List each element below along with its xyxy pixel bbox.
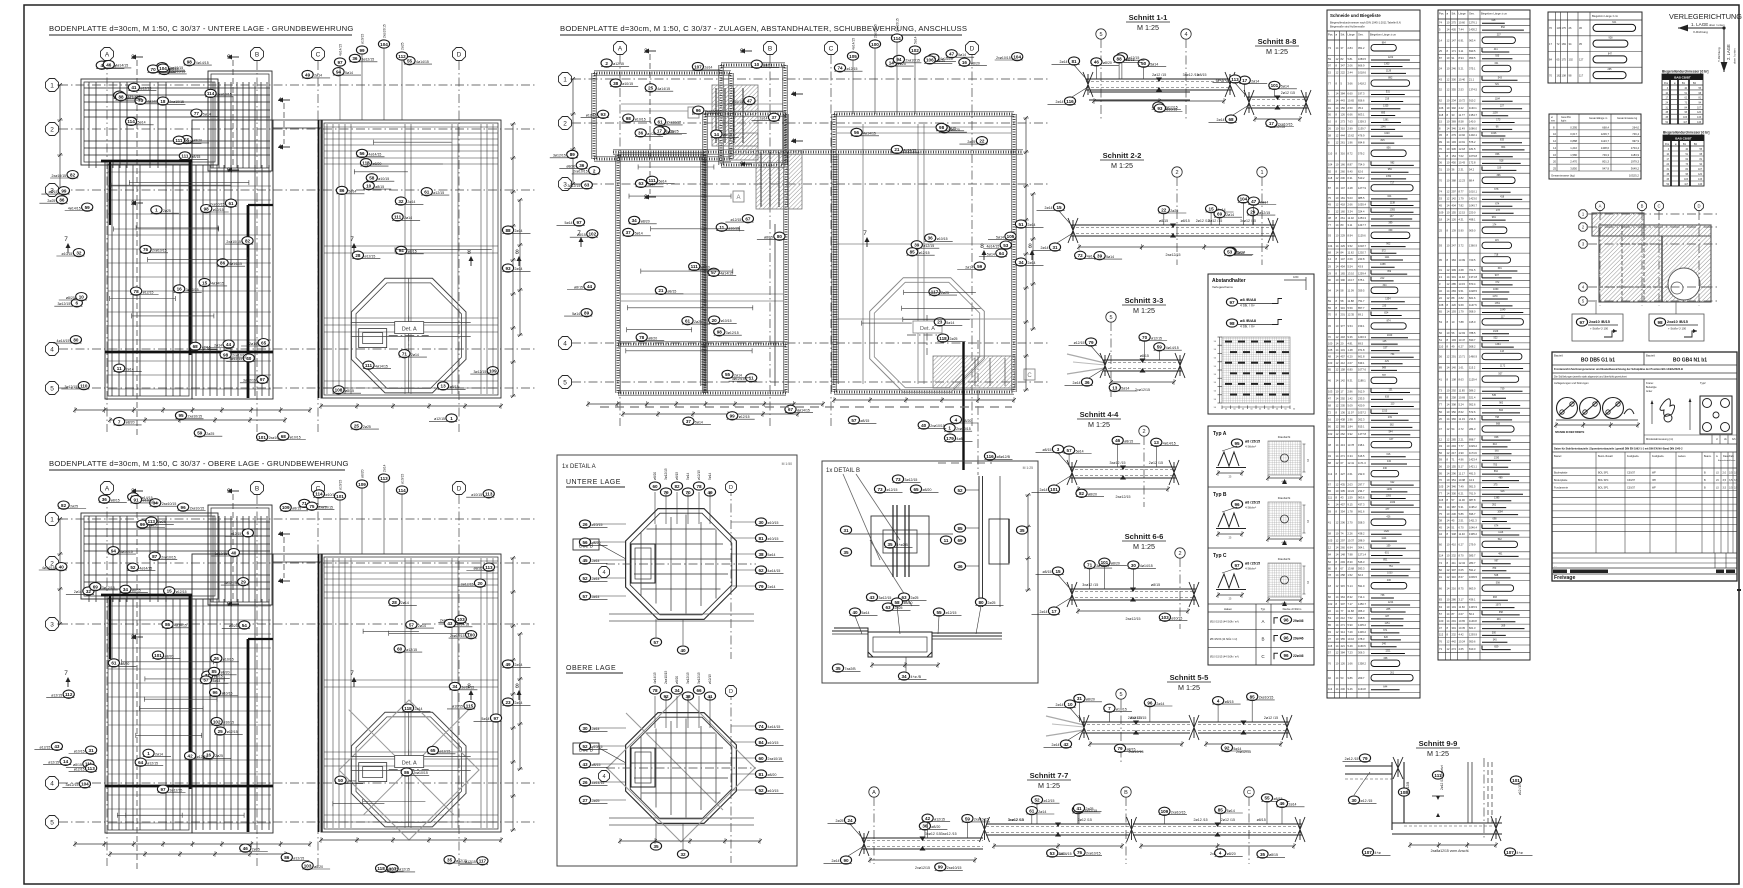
svg-text:314: 314 — [1341, 630, 1346, 634]
svg-text:5: 5 — [1109, 315, 1112, 321]
svg-text:12.15: 12.15 — [1459, 210, 1466, 214]
mass summary table — [1549, 114, 1641, 179]
svg-text:1129.6: 1129.6 — [1358, 234, 1366, 238]
svg-text:2xø8ø12/15 vorm.Anschl.: 2xø8ø12/15 vorm.Anschl. — [1431, 849, 1470, 853]
svg-text:1: 1 — [450, 416, 453, 421]
svg-text:1423.0: 1423.0 — [1469, 197, 1477, 201]
svg-text:2.86: 2.86 — [1348, 390, 1354, 394]
svg-text:2xø10/15: 2xø10/15 — [874, 24, 878, 38]
plan variant 3 outline walls — [592, 63, 1016, 395]
plan variant 2 thick walls — [101, 554, 322, 832]
section Schnitt 8-8 labels — [1209, 75, 1297, 127]
svg-text:2xø10/15: 2xø10/15 — [1259, 696, 1274, 700]
svg-text:2ø14: 2ø14 — [1060, 60, 1068, 64]
svg-text:ø12/15: ø12/15 — [708, 674, 712, 684]
svg-text:324: 324 — [1387, 195, 1392, 198]
svg-text:98: 98 — [1657, 320, 1663, 325]
svg-text:Biegeform Länge ± cm: Biegeform Länge ± cm — [1481, 12, 1507, 16]
svg-text:2ø25: 2ø25 — [836, 819, 844, 823]
svg-text:981: 981 — [1492, 216, 1497, 219]
svg-text:1351: 1351 — [1495, 302, 1501, 305]
section Schnitt 7-7 axis bubbles — [869, 787, 1254, 864]
svg-text:11: 11 — [117, 366, 122, 371]
svg-text:103: 103 — [457, 617, 465, 622]
svg-text:97: 97 — [337, 60, 343, 65]
svg-text:96: 96 — [181, 505, 187, 510]
svg-text:2xø10/15: 2xø10/15 — [947, 866, 962, 870]
svg-text:548: 548 — [1494, 574, 1499, 577]
svg-text:13.10: 13.10 — [1348, 271, 1355, 275]
svg-text:7.29: 7.29 — [1348, 630, 1354, 634]
svg-text:102: 102 — [1569, 58, 1574, 62]
svg-text:3,5: 3,5 — [1734, 479, 1738, 482]
section Schnitt 4-4 slab — [1067, 460, 1179, 499]
svg-text:104: 104 — [159, 66, 167, 71]
svg-text:87: 87 — [1452, 612, 1455, 616]
svg-text:1402.1: 1402.1 — [1469, 133, 1477, 137]
section Schnitt 3-3 title — [1122, 296, 1166, 315]
svg-text:ø8/20: ø8/20 — [971, 61, 980, 65]
svg-text:69: 69 — [1217, 212, 1223, 217]
svg-text:2ø12 /15: 2ø12 /15 — [1152, 73, 1166, 77]
svg-text:Festigkeits-: Festigkeits- — [1652, 455, 1664, 458]
svg-text:671: 671 — [1383, 629, 1388, 632]
svg-text:429: 429 — [1385, 360, 1390, 363]
svg-text:Det. A: Det. A — [402, 761, 417, 767]
svg-text:5ø14: 5ø14 — [572, 312, 580, 316]
svg-text:92: 92 — [1328, 169, 1331, 173]
svg-text:70: 70 — [1439, 478, 1442, 482]
svg-text:3ø12/15: 3ø12/15 — [726, 331, 739, 335]
svg-text:158: 158 — [1341, 368, 1346, 372]
svg-text:285: 285 — [1452, 437, 1457, 441]
svg-text:91: 91 — [1328, 106, 1331, 110]
svg-text:104: 104 — [1328, 244, 1333, 248]
svg-text:1: 1 — [50, 82, 54, 89]
svg-text:50: 50 — [1214, 407, 1217, 409]
svg-text:ø12/15: ø12/15 — [934, 817, 945, 821]
svg-text:8: 8 — [1336, 496, 1338, 500]
svg-text:93: 93 — [1439, 244, 1442, 248]
plan variant 2 dimension lines — [57, 517, 523, 857]
svg-text:2ø14: 2ø14 — [1028, 223, 1036, 227]
svg-text:155: 155 — [1452, 210, 1457, 214]
svg-text:197.3: 197.3 — [1358, 92, 1365, 96]
plan variant 1 inner reinforcement lines — [84, 60, 498, 438]
svg-text:Ges.: Ges. — [1469, 12, 1475, 16]
svg-text:7: 7 — [350, 236, 354, 243]
svg-text:2ø14: 2ø14 — [404, 216, 412, 220]
svg-text:10: 10 — [1447, 389, 1450, 393]
svg-text:1040: 1040 — [1387, 334, 1393, 337]
svg-text:147: 147 — [1341, 257, 1346, 261]
section 1-1 lower band — [1089, 92, 1190, 100]
svg-text:2: 2 — [50, 126, 54, 133]
svg-text:8: 8 — [1336, 313, 1338, 317]
svg-text:1.78: 1.78 — [1348, 509, 1354, 513]
svg-text:987.8: 987.8 — [1469, 498, 1476, 502]
svg-text:481: 481 — [1498, 552, 1503, 555]
svg-text:34: 34 — [452, 684, 458, 689]
svg-text:Schnitt 2-2: Schnitt 2-2 — [1103, 151, 1142, 160]
svg-text:57: 57 — [1328, 651, 1331, 655]
svg-text:50: 50 — [1141, 61, 1147, 66]
svg-text:305: 305 — [1341, 489, 1346, 493]
svg-text:2ø14: 2ø14 — [418, 624, 426, 628]
svg-text:2: 2 — [1178, 551, 1181, 557]
svg-text:78: 78 — [696, 484, 702, 489]
svg-text:8: 8 — [1336, 113, 1338, 117]
svg-text:ø8/15: ø8/15 — [1197, 73, 1206, 77]
svg-text:1385: 1385 — [1494, 497, 1500, 500]
svg-text:12: 12 — [1447, 647, 1450, 651]
svg-text:14: 14 — [1447, 491, 1450, 495]
svg-text:84: 84 — [1328, 553, 1331, 557]
svg-text:1.84: 1.84 — [1348, 425, 1354, 429]
svg-text:oben / unten: oben / unten — [1709, 23, 1725, 27]
svg-text:4ø14/15: 4ø14/15 — [1163, 442, 1176, 446]
svg-text:698: 698 — [1493, 518, 1498, 521]
svg-text:ø8/15: ø8/15 — [667, 290, 676, 294]
svg-text:174: 174 — [1492, 224, 1497, 227]
svg-text:2. LAGE: 2. LAGE — [1726, 44, 1731, 60]
svg-text:31: 31 — [1439, 268, 1442, 272]
plan variant 1 rotated top labels — [334, 24, 407, 120]
svg-text:1029.2: 1029.2 — [1469, 444, 1477, 448]
svg-text:BODENPLATTE d=30cm, M 1:50, C: BODENPLATTE d=30cm, M 1:50, C 30/37 - UN… — [49, 24, 354, 33]
svg-text:572: 572 — [1382, 249, 1387, 252]
svg-text:4ø14/15: 4ø14/15 — [211, 282, 224, 286]
svg-text:52: 52 — [957, 488, 963, 493]
section Schnitt 8-8 title — [1255, 37, 1299, 56]
svg-text:12: 12 — [1439, 437, 1442, 441]
svg-text:7.88: 7.88 — [1459, 320, 1465, 324]
svg-text:69: 69 — [93, 584, 99, 589]
svg-text:47: 47 — [949, 52, 955, 57]
svg-text:ø10/15: ø10/15 — [471, 493, 482, 497]
svg-text:Biegerollendurchmesser [d br]: Biegerollendurchmesser [d br] — [1662, 70, 1708, 74]
svg-text:1x DETAIL A: 1x DETAIL A — [562, 464, 596, 470]
svg-text:442: 442 — [1452, 640, 1457, 644]
svg-text:234.7: 234.7 — [1358, 489, 1365, 493]
svg-text:5.24: 5.24 — [1459, 403, 1465, 407]
svg-text:M 1:25: M 1:25 — [1038, 781, 1060, 790]
svg-text:97: 97 — [1229, 300, 1235, 305]
svg-text:399: 399 — [1452, 268, 1457, 272]
svg-text:6.60: 6.60 — [1348, 92, 1354, 96]
svg-text:2xø10/15: 2xø10/15 — [1171, 811, 1186, 815]
svg-text:98: 98 — [1569, 73, 1572, 77]
svg-text:102: 102 — [588, 232, 596, 237]
svg-text:12: 12 — [1336, 203, 1339, 207]
svg-text:C: C — [1261, 654, 1265, 659]
svg-text:76: 76 — [1328, 662, 1331, 666]
mini table Biegerollendurchmesser [d br] — [1662, 70, 1708, 125]
svg-text:Ø10 /15/15 (44 StÜk / m²): Ø10 /15/15 (44 StÜk / m²) — [1210, 620, 1239, 623]
svg-text:598: 598 — [1496, 582, 1501, 585]
svg-text:50: 50 — [1284, 409, 1287, 411]
svg-text:13: 13 — [1112, 385, 1118, 390]
svg-text:3ø12/15: 3ø12/15 — [57, 302, 70, 306]
svg-text:69.5: 69.5 — [1358, 341, 1364, 345]
svg-text:36: 36 — [1439, 161, 1442, 165]
svg-text:307: 307 — [1452, 568, 1457, 572]
svg-text:C: C — [1027, 373, 1032, 379]
svg-text:Det. A: Det. A — [402, 327, 417, 333]
svg-text:8: 8 — [1336, 472, 1338, 476]
Detail B box title — [826, 466, 1033, 474]
Typ C divider — [1208, 547, 1314, 549]
svg-text:824: 824 — [1384, 312, 1389, 315]
svg-text:111: 111 — [365, 363, 373, 368]
svg-text:217: 217 — [1452, 451, 1457, 455]
svg-text:B: B — [255, 51, 259, 58]
svg-text:5ø14: 5ø14 — [138, 121, 146, 125]
svg-text:Haken: Haken — [1224, 607, 1233, 611]
svg-text:5: 5 — [50, 819, 54, 826]
svg-text:101: 101 — [258, 435, 266, 440]
svg-text:14: 14 — [1336, 251, 1339, 255]
svg-text:56: 56 — [359, 151, 365, 156]
svg-text:85: 85 — [957, 526, 963, 531]
svg-text:58: 58 — [1328, 133, 1331, 137]
svg-text:8: 8 — [1447, 377, 1449, 381]
svg-text:78: 78 — [639, 335, 645, 340]
svg-text:24: 24 — [847, 818, 853, 823]
svg-text:8: 8 — [1447, 458, 1449, 462]
svg-text:3ø12/15: 3ø12/15 — [664, 468, 668, 480]
svg-text:0,395: 0,395 — [1570, 125, 1577, 129]
svg-text:M 1:25: M 1:25 — [1266, 47, 1288, 56]
svg-text:22: 22 — [1439, 296, 1442, 300]
svg-text:420.9: 420.9 — [1358, 404, 1365, 408]
svg-text:49: 49 — [1452, 344, 1455, 348]
svg-text:89: 89 — [584, 311, 590, 316]
svg-text:621: 621 — [1612, 21, 1617, 24]
svg-text:ø12/15: ø12/15 — [613, 62, 624, 66]
svg-text:1: 1 — [155, 208, 158, 213]
svg-text:14: 14 — [1336, 623, 1339, 627]
svg-text:oben / unten: oben / unten — [1733, 48, 1737, 64]
svg-text:2.82: 2.82 — [1459, 296, 1465, 300]
section Schnitt 6-6 axis bubbles — [1175, 548, 1185, 629]
svg-text:11.92: 11.92 — [1459, 275, 1466, 279]
svg-text:1: 1 — [563, 76, 567, 83]
svg-text:2.31: 2.31 — [1459, 168, 1465, 172]
svg-text:90: 90 — [843, 858, 849, 863]
svg-text:2xø12/15: 2xø12/15 — [1166, 253, 1181, 257]
svg-text:443: 443 — [1341, 99, 1346, 103]
svg-text:8: 8 — [1328, 140, 1330, 144]
svg-text:98: 98 — [939, 125, 945, 130]
svg-text:104: 104 — [1240, 197, 1248, 202]
svg-text:1,580: 1,580 — [1570, 153, 1577, 157]
svg-text:2ø14: 2ø14 — [185, 139, 193, 143]
svg-text:17: 17 — [1549, 42, 1552, 46]
svg-text:9.51: 9.51 — [1459, 289, 1465, 293]
svg-text:Draufsicht: Draufsicht — [1278, 496, 1291, 500]
svg-text:951.5: 951.5 — [1469, 485, 1476, 489]
svg-text:95: 95 — [178, 413, 184, 418]
svg-text:Daten für Stahlbetonbauteile |: Daten für Stahlbetonbauteile | Spannbeto… — [1554, 448, 1683, 451]
svg-text:54: 54 — [1452, 427, 1455, 431]
svg-text:59: 59 — [85, 205, 91, 210]
svg-text:3: 3 — [1328, 210, 1330, 214]
bar shapes table — [1548, 12, 1642, 83]
svg-text:11.88: 11.88 — [1348, 299, 1355, 303]
svg-text:4 Stk/m²: 4 Stk/m² — [1245, 445, 1256, 449]
svg-text:432: 432 — [1387, 460, 1392, 463]
svg-text:521.4: 521.4 — [1469, 395, 1476, 399]
svg-text:3ø12/15: 3ø12/15 — [66, 783, 79, 787]
svg-text:ø8/15: ø8/15 — [292, 507, 301, 511]
svg-text:OBERE LAGE: OBERE LAGE — [566, 665, 616, 672]
bar schedule column header row — [1327, 31, 1420, 698]
svg-text:142: 142 — [1452, 197, 1457, 201]
svg-text:ø10/15: ø10/15 — [223, 658, 234, 662]
section Schnitt 6-6 slab — [1067, 582, 1199, 621]
svg-text:958.0: 958.0 — [1469, 310, 1476, 314]
svg-text:94: 94 — [399, 248, 405, 253]
svg-text:392: 392 — [1452, 106, 1457, 110]
svg-text:690.7: 690.7 — [1469, 338, 1476, 342]
svg-text:ø12/15: ø12/15 — [730, 218, 741, 222]
svg-text:6.20: 6.20 — [1348, 354, 1354, 358]
svg-text:13: 13 — [1439, 275, 1442, 279]
svg-text:2ø14: 2ø14 — [249, 342, 257, 346]
svg-text:M 1:25: M 1:25 — [1427, 749, 1449, 758]
svg-text:74: 74 — [1439, 189, 1442, 193]
svg-text:1277.9: 1277.9 — [1358, 186, 1366, 190]
svg-text:3.92: 3.92 — [1348, 432, 1354, 436]
svg-text:3ø12/15: 3ø12/15 — [473, 370, 486, 374]
svg-text:108: 108 — [1562, 73, 1567, 77]
svg-text:4: 4 — [50, 346, 54, 353]
plan variant 1 position bubbles — [39, 54, 498, 441]
svg-text:10: 10 — [1447, 56, 1450, 60]
svg-text:55: 55 — [407, 59, 413, 64]
svg-text:12: 12 — [1336, 482, 1339, 486]
section Schnitt 2-2 labels — [1033, 195, 1277, 260]
svg-text:12: 12 — [1447, 568, 1450, 572]
svg-text:2xø10/15: 2xø10/15 — [190, 506, 205, 510]
svg-text:1195.2: 1195.2 — [1469, 505, 1477, 509]
svg-text:2ø14: 2ø14 — [1056, 100, 1064, 104]
svg-text:5ø14: 5ø14 — [958, 53, 966, 57]
svg-text:7.63: 7.63 — [1348, 120, 1354, 124]
svg-text:ø8/20: ø8/20 — [229, 624, 238, 628]
svg-text:Mindestabmessung (m): Mindestabmessung (m) — [1646, 437, 1673, 441]
svg-text:193: 193 — [1452, 338, 1457, 342]
svg-text:B: B — [1124, 790, 1128, 796]
svg-text:Bauteil:: Bauteil: — [1554, 354, 1564, 358]
plan variant 1 section cut marks — [64, 54, 521, 266]
svg-text:187: 187 — [1385, 615, 1390, 618]
svg-text:60: 60 — [758, 756, 764, 761]
svg-text:6.21: 6.21 — [1459, 491, 1465, 495]
title block data table header — [1552, 448, 1737, 554]
svg-text:220.0: 220.0 — [1469, 210, 1476, 214]
svg-text:A: A — [105, 51, 110, 58]
svg-text:115.2: 115.2 — [1469, 366, 1476, 370]
svg-text:205: 205 — [1341, 404, 1346, 408]
svg-text:ø12/15: ø12/15 — [74, 767, 85, 771]
svg-text:2ø25: 2ø25 — [666, 130, 674, 134]
svg-text:2ø14: 2ø14 — [760, 117, 768, 121]
svg-text:1084: 1084 — [1497, 511, 1503, 514]
svg-text:50: 50 — [1214, 349, 1217, 351]
svg-text:2ø25: 2ø25 — [158, 520, 166, 524]
svg-text:316: 316 — [1452, 575, 1457, 579]
svg-text:4.65: 4.65 — [1459, 647, 1465, 651]
svg-text:10: 10 — [1447, 512, 1450, 516]
svg-text:0,888: 0,888 — [1570, 139, 1577, 143]
svg-text:97: 97 — [1234, 563, 1240, 568]
svg-text:75: 75 — [1328, 196, 1331, 200]
svg-text:106: 106 — [1439, 106, 1444, 110]
svg-text:10.60: 10.60 — [1459, 20, 1466, 24]
svg-text:227: 227 — [1500, 105, 1505, 108]
svg-text:2xø10/15: 2xø10/15 — [217, 93, 232, 97]
svg-text:674: 674 — [1494, 524, 1499, 527]
svg-text:1x DETAIL B: 1x DETAIL B — [826, 468, 860, 474]
section Schnitt 4-4 title — [1077, 410, 1121, 429]
svg-text:815: 815 — [1381, 139, 1386, 142]
svg-text:24: 24 — [1439, 67, 1442, 71]
svg-text:546.3: 546.3 — [1358, 560, 1365, 564]
svg-text:384: 384 — [1341, 92, 1346, 96]
svg-text:8: 8 — [1336, 257, 1338, 261]
svg-text:127: 127 — [1579, 58, 1584, 62]
svg-text:13.71: 13.71 — [1459, 355, 1466, 359]
svg-text:12: 12 — [1447, 78, 1450, 82]
svg-text:411: 411 — [1452, 561, 1457, 565]
svg-text:160: 160 — [1341, 210, 1346, 214]
svg-text:4.42: 4.42 — [1459, 633, 1465, 637]
svg-text:291: 291 — [1452, 619, 1457, 623]
svg-text:2xø10/15: 2xø10/15 — [383, 24, 387, 38]
svg-text:3xø12 /15: 3xø12 /15 — [1240, 219, 1256, 223]
svg-text:35: 35 — [1579, 42, 1582, 46]
svg-text:4ø14/15: 4ø14/15 — [797, 409, 810, 413]
svg-text:50: 50 — [1233, 409, 1236, 411]
svg-text:898.7: 898.7 — [1469, 437, 1476, 441]
svg-text:8: 8 — [1447, 320, 1449, 324]
svg-text:Draufsicht: Draufsicht — [1278, 557, 1291, 561]
svg-text:70: 70 — [1328, 313, 1331, 317]
svg-text:5.03: 5.03 — [1348, 196, 1354, 200]
svg-text:13.92: 13.92 — [1459, 133, 1466, 137]
Verlegerichtung arrow 2 vertical — [1717, 26, 1737, 72]
svg-text:Länge: Länge — [1459, 12, 1467, 16]
svg-text:6.70: 6.70 — [1459, 526, 1465, 530]
svg-text:ø8/15: ø8/15 — [675, 472, 679, 480]
svg-text:93: 93 — [1439, 444, 1442, 448]
plan variant 2 outline walls — [81, 505, 501, 833]
svg-text:78: 78 — [652, 688, 658, 693]
svg-text:ø8ø12/B: ø8ø12/B — [1406, 782, 1410, 794]
svg-text:BAB CB/BT: BAB CB/BT — [1675, 137, 1692, 141]
svg-text:1364: 1364 — [1495, 343, 1501, 346]
svg-text:694.8: 694.8 — [1358, 140, 1365, 144]
svg-text:Typ2: Typ2 — [1700, 381, 1706, 385]
svg-text:714.4: 714.4 — [1358, 595, 1365, 599]
svg-text:D: D — [457, 485, 462, 492]
svg-text:3.52: 3.52 — [1348, 244, 1354, 248]
svg-text:ø10/15: ø10/15 — [635, 117, 646, 121]
svg-text:13.91: 13.91 — [1459, 140, 1466, 144]
svg-text:65: 65 — [1328, 489, 1331, 493]
